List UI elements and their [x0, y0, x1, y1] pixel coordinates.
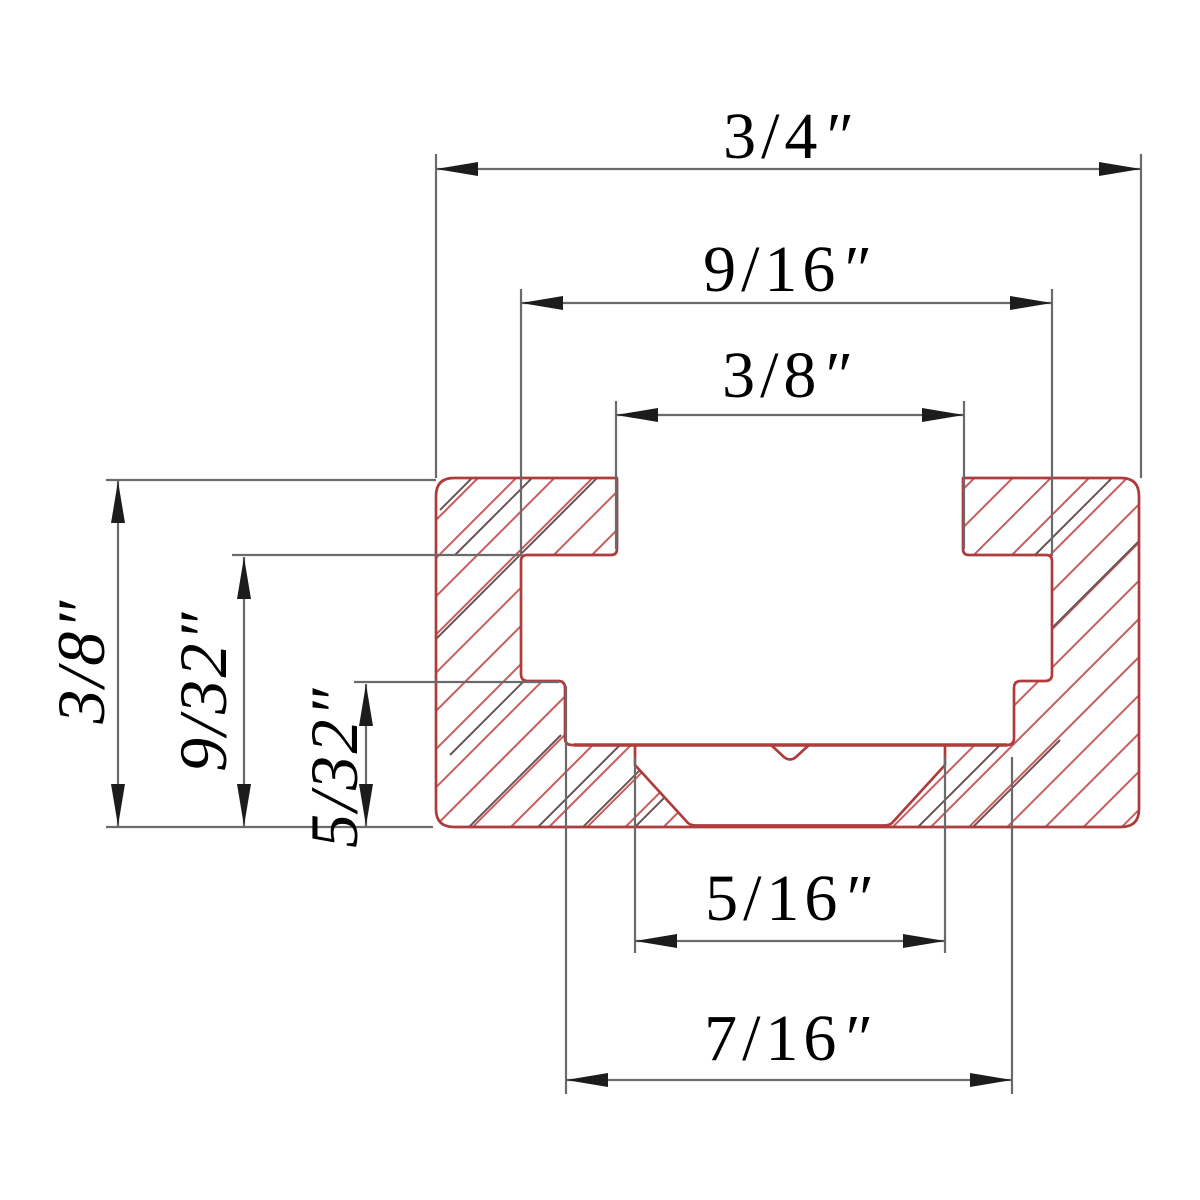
- svg-text:3/8″: 3/8″: [722, 339, 854, 412]
- svg-text:3/8″: 3/8″: [43, 598, 119, 724]
- dimension 3/8 inch (slot opening width): [616, 401, 964, 549]
- svg-text:9/32″: 9/32″: [165, 610, 241, 772]
- dimension 3/4 inch (overall width): [436, 154, 1141, 478]
- dimension 5/16 inch (pocket top width): [635, 757, 945, 953]
- svg-text:5/32″: 5/32″: [296, 686, 372, 848]
- bottom pocket void outline: [635, 745, 945, 826]
- svg-text:3/4″: 3/4″: [723, 100, 855, 173]
- dimension 3/8 inch (overall height, left): [106, 480, 436, 827]
- dark hatch accent lines: [436, 475, 1145, 837]
- svg-text:9/16″: 9/16″: [703, 233, 873, 306]
- dimension 5/32 inch (step to bottom): [354, 682, 559, 826]
- dimension 7/16 inch (floor width): [566, 686, 1012, 1094]
- profile cross-section hatched fill: [436, 478, 1139, 827]
- dimension 9/32 inch (lip underside to bottom): [232, 555, 521, 826]
- dimension 9/16 inch (cavity width): [521, 289, 1052, 556]
- cavity floor line (thicker over pocket): [574, 743, 1007, 746]
- profile outline (T-track section): [436, 478, 1139, 827]
- svg-text:5/16″: 5/16″: [705, 862, 875, 935]
- svg-text:7/16″: 7/16″: [704, 1002, 874, 1075]
